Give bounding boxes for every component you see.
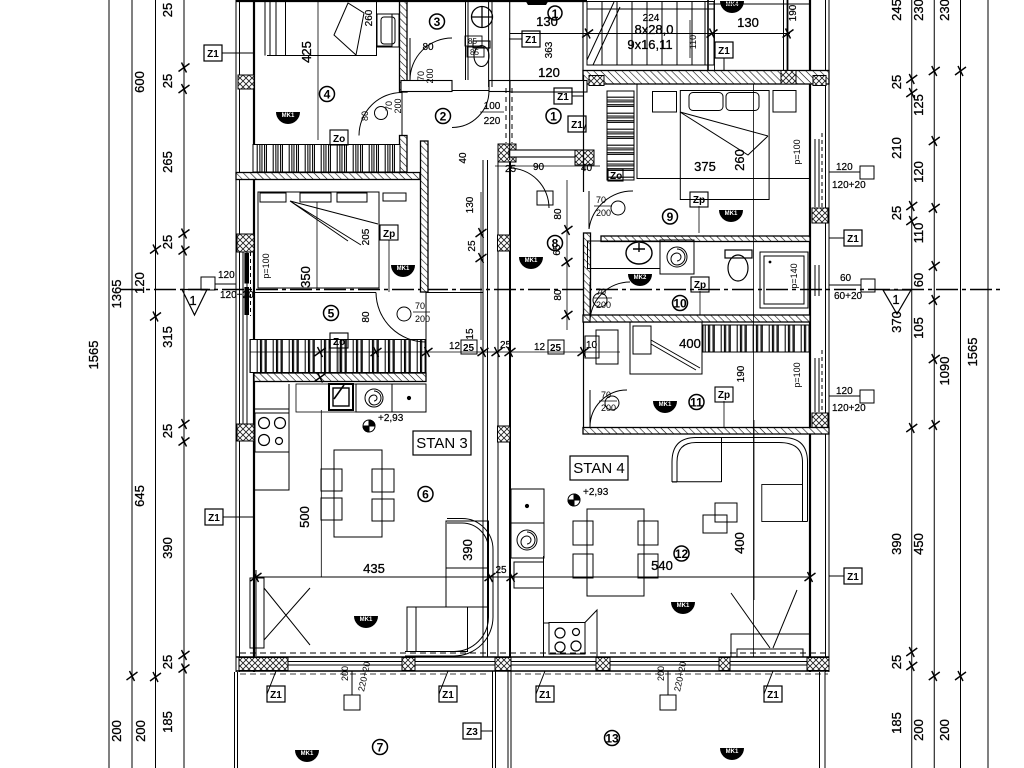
svg-text:120+20: 120+20	[220, 290, 254, 301]
svg-text:80: 80	[422, 42, 434, 53]
svg-text:120: 120	[836, 386, 853, 397]
Zp wardrobe room4	[330, 130, 348, 145]
svg-text:120: 120	[218, 270, 235, 281]
washer room8	[660, 240, 694, 274]
svg-text:25: 25	[160, 3, 175, 17]
wall block top-right corner	[781, 71, 796, 85]
bottom wall blocks	[239, 658, 288, 671]
door room9	[589, 191, 633, 229]
bed room4	[267, 0, 399, 56]
right wall window blocks	[812, 208, 828, 223]
terrace right edge	[820, 672, 826, 768]
svg-text:p=100: p=100	[792, 362, 802, 387]
Zp wardrobe room6	[330, 333, 348, 348]
svg-text:MK1: MK1	[282, 113, 295, 119]
svg-text:1: 1	[189, 293, 196, 308]
svg-text:Z1: Z1	[847, 572, 859, 583]
Zp room5	[380, 225, 398, 240]
svg-text:6: 6	[422, 488, 429, 502]
door room11	[590, 390, 627, 427]
svg-text:Z1: Z1	[270, 690, 282, 701]
svg-text:2: 2	[440, 110, 447, 124]
terrace left edge	[235, 672, 238, 768]
MK symbol	[295, 750, 319, 762]
right dimension chain lines	[912, 0, 988, 768]
desk chair room11	[585, 336, 599, 358]
svg-text:25: 25	[500, 340, 512, 351]
svg-text:Z1: Z1	[525, 35, 537, 46]
toilet room3	[472, 7, 493, 28]
dim 435 line	[256, 576, 810, 578]
section line 1-1	[120, 289, 1000, 291]
svg-text:25: 25	[889, 655, 904, 669]
svg-text:Zo: Zo	[610, 171, 622, 182]
bed room5	[258, 192, 406, 288]
wardrobe room6 (STAN3)	[250, 340, 426, 373]
svg-text:25: 25	[889, 75, 904, 89]
svg-text:130: 130	[465, 196, 476, 213]
svg-text:MK1: MK1	[397, 266, 410, 272]
svg-text:120: 120	[836, 162, 853, 173]
svg-text:390: 390	[889, 533, 904, 555]
niche boxes 85	[465, 36, 484, 57]
central wall blocks	[498, 235, 511, 251]
svg-text:Z1: Z1	[571, 120, 583, 131]
svg-text:120+20: 120+20	[832, 180, 866, 191]
svg-text:260: 260	[364, 9, 375, 26]
svg-text:245: 245	[889, 0, 904, 21]
window right wall 2	[815, 265, 819, 296]
svg-text:375: 375	[694, 159, 716, 174]
room numbers left	[320, 87, 335, 102]
svg-text:540: 540	[651, 558, 673, 573]
wardrobe room4	[253, 145, 400, 173]
svg-text:3: 3	[434, 15, 441, 29]
svg-text:110: 110	[688, 35, 698, 49]
MK symbol	[719, 210, 743, 222]
door room2 arc	[452, 91, 489, 128]
wall room9 bottom	[601, 236, 810, 242]
svg-text:25: 25	[463, 343, 475, 354]
wall top-right entry	[784, 0, 788, 72]
svg-text:363: 363	[544, 41, 555, 58]
svg-text:1565: 1565	[965, 338, 980, 367]
svg-text:25: 25	[495, 565, 507, 576]
MK symbol	[519, 257, 543, 269]
svg-text:Z1: Z1	[718, 46, 730, 57]
svg-text:200: 200	[109, 720, 124, 742]
svg-text:390: 390	[460, 539, 475, 561]
kitchen STAN4	[514, 556, 597, 657]
svg-text:185: 185	[160, 711, 175, 733]
MK symbol	[354, 616, 378, 628]
svg-text:120+20: 120+20	[832, 403, 866, 414]
label STAN 4	[570, 456, 628, 480]
stove STAN3	[259, 418, 286, 446]
wall block left window top	[237, 234, 254, 252]
svg-text:60: 60	[911, 273, 926, 287]
svg-text:25: 25	[550, 343, 562, 354]
MK symbol	[653, 401, 677, 413]
svg-text:Z3: Z3	[466, 727, 478, 738]
svg-text:Z1: Z1	[539, 690, 551, 701]
svg-text:200: 200	[415, 314, 430, 324]
wall block room9 left	[589, 76, 604, 86]
svg-text:90: 90	[533, 162, 545, 173]
window right wall 3	[815, 350, 822, 412]
wall left exterior	[236, 0, 254, 672]
door room5 arc	[376, 293, 426, 343]
door room3	[410, 38, 452, 80]
svg-text:230: 230	[937, 0, 952, 21]
window left wall	[243, 252, 251, 424]
bed room11	[630, 322, 702, 374]
svg-text:25: 25	[160, 655, 175, 669]
closet line room4	[265, 0, 276, 56]
svg-text:MK4: MK4	[726, 2, 739, 8]
svg-text:105: 105	[911, 317, 926, 339]
appliances STAN4	[511, 489, 544, 558]
svg-text:1090: 1090	[937, 357, 952, 386]
Zp room9	[690, 192, 708, 207]
svg-text:200: 200	[911, 719, 926, 741]
svg-text:85: 85	[470, 48, 479, 57]
tv cabinet room12	[731, 590, 810, 657]
svg-text:70: 70	[596, 287, 606, 297]
window marker right 2	[829, 279, 875, 292]
svg-text:Z1: Z1	[442, 690, 454, 701]
sink room3	[473, 41, 490, 67]
svg-text:400: 400	[679, 336, 701, 351]
svg-text:200: 200	[601, 403, 616, 413]
wall room5 bottom door	[254, 292, 483, 294]
svg-text:450: 450	[911, 533, 926, 555]
table STAN3	[321, 450, 394, 537]
svg-text:Zp: Zp	[693, 195, 705, 206]
svg-text:80: 80	[360, 111, 370, 121]
wardrobe room11	[703, 325, 810, 352]
svg-text:Z1: Z1	[207, 49, 219, 60]
svg-text:Z1: Z1	[847, 234, 859, 245]
svg-text:Z1: Z1	[557, 92, 569, 103]
svg-text:435: 435	[363, 561, 385, 576]
svg-text:600: 600	[132, 71, 147, 93]
kitchen counter STAN3	[254, 384, 289, 490]
svg-text:85: 85	[468, 37, 477, 46]
MK symbol	[628, 274, 652, 286]
svg-text:5: 5	[328, 307, 335, 321]
svg-text:65: 65	[552, 244, 563, 256]
wall room3/room2 divider	[401, 81, 452, 92]
hall walls	[510, 0, 583, 160]
sink room8	[626, 242, 652, 264]
MK symbol top cut	[525, 0, 549, 5]
wall right exterior	[810, 0, 829, 672]
svg-text:Z1: Z1	[767, 690, 779, 701]
svg-text:9x16,11: 9x16,11	[627, 37, 672, 52]
dim 400 sofa	[753, 420, 755, 600]
svg-text:200: 200	[656, 666, 666, 681]
svg-text:185: 185	[889, 712, 904, 734]
room numbers right	[546, 109, 561, 124]
svg-text:110: 110	[911, 223, 926, 244]
wall room4 bottom	[236, 173, 420, 180]
svg-text:120: 120	[911, 161, 926, 183]
svg-text:1565: 1565	[86, 341, 101, 370]
svg-text:100: 100	[484, 101, 501, 112]
shower room8 right	[760, 252, 808, 308]
svg-text:+2,93: +2,93	[583, 487, 609, 498]
Zo box stairs wall	[608, 169, 623, 181]
wall room11 bottom	[583, 428, 829, 435]
svg-text:MK1: MK1	[301, 751, 314, 757]
dim room5	[316, 202, 318, 288]
svg-text:Zo: Zo	[333, 134, 345, 145]
svg-text:80: 80	[553, 208, 564, 220]
svg-text:200: 200	[393, 98, 403, 113]
level +2,93 STAN4	[568, 494, 580, 506]
svg-text:4: 4	[324, 88, 331, 102]
svg-text:230: 230	[911, 0, 926, 21]
svg-text:MK1: MK1	[525, 258, 538, 264]
bottom window marker right	[660, 671, 676, 710]
window sash left	[244, 253, 249, 284]
svg-text:200: 200	[596, 300, 611, 310]
door hall top	[509, 168, 553, 208]
svg-text:Zp: Zp	[383, 229, 395, 240]
svg-text:25: 25	[889, 206, 904, 220]
bottom window marker left	[344, 671, 360, 710]
wall room6 top	[254, 373, 426, 382]
wall room4/room2 divider	[400, 0, 408, 92]
section marker triangle right	[883, 290, 911, 314]
svg-text:315: 315	[160, 326, 175, 348]
stairs	[587, 2, 714, 66]
plan cut line top	[236, 0, 587, 2]
door room10	[590, 282, 630, 322]
wall block left room4	[238, 75, 254, 89]
svg-text:Zp: Zp	[718, 390, 730, 401]
svg-text:25: 25	[467, 240, 478, 252]
MK symbol	[276, 112, 300, 124]
svg-text:80: 80	[361, 311, 372, 323]
svg-text:80: 80	[553, 289, 564, 301]
svg-text:200: 200	[596, 208, 611, 218]
svg-text:8x28,0: 8x28,0	[634, 22, 673, 37]
svg-text:200: 200	[340, 666, 350, 681]
wardrobe room9	[607, 91, 634, 180]
shelf room3	[377, 14, 392, 46]
left dimension chain lines	[109, 0, 184, 768]
svg-text:260: 260	[732, 149, 747, 171]
svg-text:120: 120	[132, 272, 147, 294]
label STAN 3	[413, 431, 471, 455]
svg-text:+2,93: +2,93	[378, 413, 404, 424]
svg-text:15: 15	[465, 328, 476, 340]
window marker right 1	[829, 166, 874, 179]
entry door dashes	[505, 88, 507, 143]
Zp room10	[691, 277, 709, 292]
svg-text:25: 25	[160, 235, 175, 249]
dim room4	[317, 0, 319, 140]
dim 500 line	[320, 410, 322, 577]
svg-text:p=140: p=140	[789, 263, 799, 288]
desk room11	[596, 330, 618, 364]
terrace divider wall	[493, 671, 512, 768]
wall block left window bottom	[237, 424, 254, 441]
svg-text:425: 425	[299, 41, 314, 63]
table STAN4	[573, 509, 658, 596]
left chain tick marks	[127, 63, 190, 683]
dashed lintel line above bottom wall	[240, 652, 828, 654]
svg-text:190: 190	[788, 4, 799, 21]
svg-text:40: 40	[581, 163, 593, 174]
svg-text:MK2: MK2	[634, 275, 647, 281]
svg-text:125: 125	[911, 94, 926, 116]
svg-text:25: 25	[160, 74, 175, 88]
window marker left 120	[201, 277, 236, 290]
Z1 markers left	[204, 45, 222, 61]
MK symbol	[720, 748, 744, 760]
svg-text:645: 645	[132, 485, 147, 507]
svg-text:p=100: p=100	[792, 139, 802, 164]
dim line top 130	[510, 33, 790, 35]
wall bottom facade	[236, 657, 829, 671]
Z1 markers right	[844, 230, 862, 246]
svg-text:220: 220	[484, 116, 501, 127]
svg-text:13: 13	[605, 732, 619, 746]
right chain dimension texts	[889, 0, 980, 741]
svg-text:265: 265	[160, 151, 175, 173]
window marker right 3	[829, 390, 874, 403]
svg-text:Zp: Zp	[694, 280, 706, 291]
svg-text:STAN 3: STAN 3	[416, 435, 467, 452]
svg-text:MK1: MK1	[360, 617, 373, 623]
svg-text:200: 200	[133, 720, 148, 742]
Zp room11	[715, 387, 733, 402]
svg-text:70: 70	[596, 195, 606, 205]
svg-text:370: 370	[889, 311, 904, 333]
svg-text:40: 40	[458, 152, 469, 164]
left chain dimension texts	[86, 3, 175, 742]
svg-text:MK1: MK1	[659, 402, 672, 408]
svg-text:Z1: Z1	[208, 513, 220, 524]
svg-text:500: 500	[297, 506, 312, 528]
wall central party	[483, 160, 510, 657]
MK symbol	[720, 1, 744, 13]
bed room9	[637, 84, 810, 200]
svg-text:205: 205	[361, 228, 372, 245]
svg-text:60+20: 60+20	[834, 291, 863, 302]
svg-text:STAN 4: STAN 4	[573, 460, 624, 477]
svg-text:9: 9	[667, 210, 674, 224]
sofa STAN4	[672, 438, 808, 522]
svg-text:210: 210	[889, 137, 904, 159]
level +2,93 STAN3	[363, 420, 375, 432]
svg-text:MK1: MK1	[677, 603, 690, 609]
svg-text:MK1: MK1	[725, 211, 738, 217]
svg-text:MK1: MK1	[726, 749, 739, 755]
svg-text:190: 190	[736, 365, 747, 382]
svg-text:7: 7	[377, 741, 384, 755]
window right wall 1	[815, 133, 822, 211]
appliances near party wall STAN3	[356, 384, 426, 412]
wall entry hall bottom	[509, 150, 583, 157]
door room4	[359, 93, 402, 136]
closet room6 bottom	[250, 570, 310, 656]
stove STAN4	[555, 628, 581, 652]
wall room9 top	[583, 71, 829, 85]
svg-text:200: 200	[425, 68, 435, 83]
svg-text:390: 390	[160, 537, 175, 559]
svg-text:70: 70	[415, 301, 425, 311]
svg-text:200: 200	[937, 719, 952, 741]
svg-text:1: 1	[892, 292, 899, 307]
MK symbol	[671, 602, 695, 614]
wall bath8/bath10 divider	[583, 315, 810, 322]
svg-text:400: 400	[732, 532, 747, 554]
svg-text:1: 1	[552, 7, 559, 21]
coffee tables STAN4	[703, 503, 737, 533]
svg-text:130: 130	[737, 15, 759, 30]
svg-text:12: 12	[449, 341, 461, 352]
dim row mid	[250, 348, 620, 373]
wc room8	[725, 250, 752, 281]
svg-text:60: 60	[840, 273, 852, 284]
svg-text:10: 10	[673, 297, 687, 311]
section marker triangle left	[182, 290, 207, 316]
svg-text:1365: 1365	[109, 280, 124, 309]
MK symbol	[391, 265, 415, 277]
wall room5 right	[421, 141, 429, 292]
bottom windows glazing	[288, 662, 807, 666]
svg-text:25: 25	[160, 424, 175, 438]
svg-text:Zo: Zo	[333, 337, 345, 348]
wall hall/bath vertical (STAN4)	[584, 233, 591, 322]
svg-text:12: 12	[675, 547, 689, 561]
sofa STAN3	[405, 519, 493, 657]
svg-text:350: 350	[298, 266, 313, 288]
svg-text:11: 11	[690, 396, 703, 410]
svg-text:120: 120	[538, 65, 560, 80]
stairs top wall	[236, 1, 587, 3]
svg-text:p=100: p=100	[261, 253, 271, 278]
svg-text:1: 1	[550, 110, 557, 124]
right chain tick marks	[906, 66, 966, 681]
svg-text:12: 12	[534, 342, 546, 353]
vanity counter room10	[588, 241, 661, 269]
sink STAN3	[296, 384, 356, 412]
